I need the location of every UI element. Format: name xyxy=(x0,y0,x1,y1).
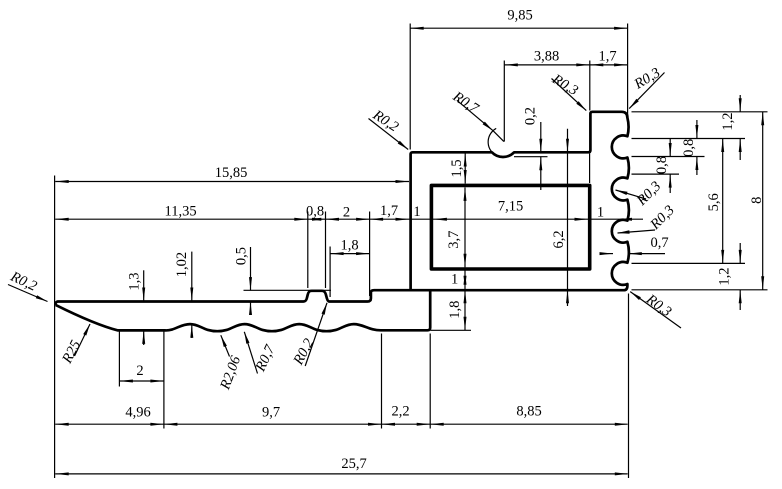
svg-text:5,6: 5,6 xyxy=(706,193,722,211)
svg-text:2: 2 xyxy=(136,363,143,379)
svg-text:8: 8 xyxy=(749,197,765,204)
svg-text:1,7: 1,7 xyxy=(598,48,616,64)
svg-text:1: 1 xyxy=(451,272,458,288)
svg-text:9,7: 9,7 xyxy=(262,405,280,421)
svg-text:1,7: 1,7 xyxy=(380,203,398,219)
svg-text:0,5: 0,5 xyxy=(233,247,249,265)
svg-text:25,7: 25,7 xyxy=(341,456,366,472)
svg-text:1: 1 xyxy=(413,204,420,220)
svg-text:1,3: 1,3 xyxy=(126,272,142,290)
svg-text:15,85: 15,85 xyxy=(215,165,248,181)
svg-text:1,02: 1,02 xyxy=(174,252,190,277)
svg-text:2,2: 2,2 xyxy=(391,403,409,419)
svg-text:1,2: 1,2 xyxy=(716,267,732,285)
svg-text:6,2: 6,2 xyxy=(551,230,567,248)
svg-text:1,8: 1,8 xyxy=(447,301,463,319)
svg-text:0,8: 0,8 xyxy=(306,203,324,219)
svg-text:9,85: 9,85 xyxy=(507,8,532,24)
svg-text:3,88: 3,88 xyxy=(534,48,559,64)
svg-text:7,15: 7,15 xyxy=(498,199,523,215)
svg-text:2: 2 xyxy=(343,204,350,220)
svg-text:11,35: 11,35 xyxy=(165,204,197,220)
svg-text:4,96: 4,96 xyxy=(125,405,150,421)
svg-text:0,2: 0,2 xyxy=(522,107,538,125)
svg-text:0,8: 0,8 xyxy=(654,156,670,174)
svg-text:0,8: 0,8 xyxy=(681,139,697,157)
svg-text:8,85: 8,85 xyxy=(516,403,541,419)
svg-text:0,7: 0,7 xyxy=(651,235,669,251)
svg-text:1: 1 xyxy=(597,204,604,220)
svg-text:1,8: 1,8 xyxy=(340,238,358,254)
svg-text:3,7: 3,7 xyxy=(446,231,462,249)
svg-text:1,2: 1,2 xyxy=(720,112,736,130)
svg-text:1,5: 1,5 xyxy=(449,159,465,177)
